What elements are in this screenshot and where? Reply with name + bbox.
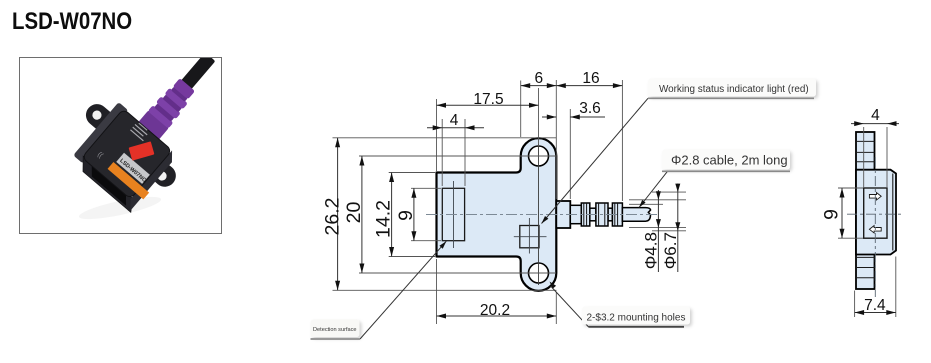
dim line 16 [556, 85, 622, 87]
dim line 20 [361, 156, 363, 273]
cable stub [556, 201, 570, 228]
svg-text:6: 6 [534, 70, 543, 87]
dim line dia6.7 [677, 184, 679, 193]
dimension lines [338, 86, 678, 316]
side dim texts [821, 107, 887, 314]
leader: working status indicator [542, 79, 817, 224]
detection window [87, 166, 132, 206]
17.5 [437, 103, 447, 108]
emitter arrow [869, 193, 881, 200]
sensor shadow [77, 192, 162, 223]
dimension arrowheads [335, 83, 680, 318]
orange logo strip [108, 162, 150, 199]
bottom bevel surface [125, 150, 178, 210]
26.2 [335, 138, 340, 148]
leader: mounting holes label [550, 282, 691, 327]
small white spec text lines [130, 129, 144, 141]
sensor front extrusion / detection side [75, 156, 138, 213]
svg-text:Φ4.8: Φ4.8 [641, 232, 660, 269]
dimension texts [321, 70, 680, 319]
column rib lines [856, 141, 875, 277]
svg-text:Working status indicator light: Working status indicator light (red) [659, 84, 809, 95]
dim line 6 [521, 85, 557, 87]
svg-text:14.2: 14.2 [373, 200, 395, 238]
indicator centerlines [528, 218, 530, 254]
svg-text:7.4: 7.4 [864, 297, 886, 314]
20 [359, 156, 364, 166]
horizontal centerline [426, 214, 657, 216]
red indicator on photo [129, 141, 155, 160]
receiver arrow [869, 226, 881, 233]
title LSD-W07NO [12, 8, 132, 36]
mounting hole bottom [529, 263, 549, 283]
dia 6.7 [675, 184, 680, 193]
window centerline [453, 181, 455, 248]
side dim lines [842, 124, 899, 313]
strain relief neck [570, 205, 581, 223]
svg-text:17.5: 17.5 [473, 91, 503, 108]
leader: detection surface label [311, 241, 447, 339]
svg-text:4: 4 [871, 107, 880, 124]
dim line 14.2 [391, 173, 393, 257]
sensor body front face [82, 109, 172, 199]
dim line 4 [427, 127, 484, 129]
16 [556, 83, 566, 88]
indicator square [520, 226, 539, 248]
svg-text:9: 9 [395, 210, 417, 221]
side centerlines [847, 213, 904, 215]
dim line dia4.8 [657, 190, 659, 200]
strain relief ribs [581, 203, 622, 226]
mounting hole top [529, 146, 549, 166]
cable [148, 52, 215, 128]
cable boot purple [136, 76, 198, 142]
svg-text:26.2: 26.2 [321, 198, 343, 236]
cable [622, 208, 650, 222]
mounting ear lower [148, 159, 181, 191]
leader: cable label [639, 150, 790, 208]
sensor top face [73, 102, 128, 164]
detection window rectangle [442, 188, 464, 240]
SIDE VIEW [821, 107, 904, 317]
side window [864, 188, 887, 238]
4 front, outside [433, 125, 443, 130]
side column [856, 132, 875, 289]
svg-text:Φ2.8 cable, 2m long: Φ2.8 cable, 2m long [671, 152, 788, 167]
side ext lines [838, 127, 896, 317]
svg-text:Detection surface: Detection surface [313, 327, 357, 333]
9 [411, 188, 416, 198]
20.2 [437, 314, 447, 319]
extension lines [333, 80, 687, 324]
6 [521, 83, 531, 88]
dia 4.8 [656, 191, 661, 200]
svg-text:9: 9 [821, 209, 843, 220]
dim line 20.2 [437, 315, 557, 317]
svg-text:3.6: 3.6 [579, 100, 601, 117]
product photo [19, 57, 222, 234]
dim line 9 [413, 188, 415, 240]
dim line 17.5 [437, 104, 539, 106]
3.6 outside [547, 115, 557, 120]
vertical hole axis centerline [538, 144, 540, 285]
svg-text:20: 20 [343, 202, 365, 224]
side plate [856, 170, 896, 255]
plate inner edge [892, 174, 894, 251]
14.2 [389, 173, 394, 183]
svg-text:4: 4 [450, 112, 459, 129]
side arrowheads [840, 121, 897, 315]
label strip with model text [116, 153, 150, 184]
dim line 3.6 [542, 116, 556, 118]
svg-text:20.2: 20.2 [480, 302, 510, 319]
svg-text:2-$3.2 mounting holes: 2-$3.2 mounting holes [587, 313, 686, 324]
svg-text:Φ6.7: Φ6.7 [661, 232, 680, 269]
body outline with mounting ears [437, 138, 557, 291]
mounting ear upper [81, 100, 121, 139]
dim line 26.2 [337, 138, 339, 290]
svg-text:16: 16 [582, 70, 599, 87]
